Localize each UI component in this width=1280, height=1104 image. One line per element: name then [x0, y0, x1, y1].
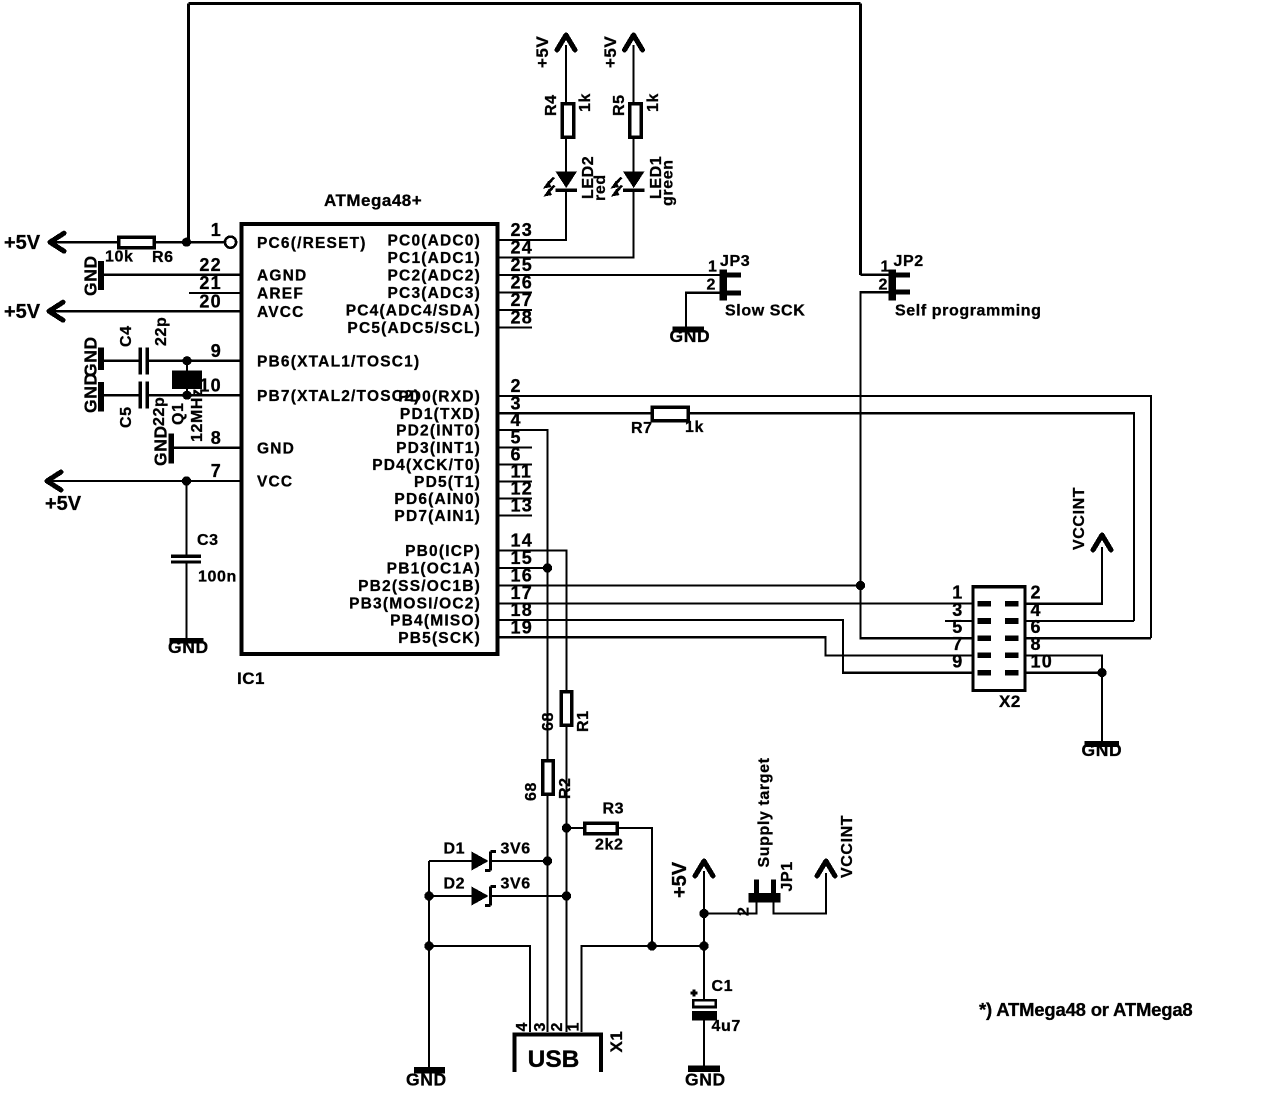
wire PC2 pin 25 to JP3 [498, 274, 720, 276]
svg-text:GND: GND [81, 336, 101, 377]
wire D2 cathode to D+ [491, 895, 567, 897]
wire R4 to LED2 [565, 138, 567, 173]
wire top reset rail [189, 2, 861, 5]
ground (X2) [1085, 741, 1120, 747]
crystal Q1 12MHz [172, 371, 202, 390]
wire PD4 pin 6 stub [498, 463, 533, 465]
svg-text:+5V: +5V [533, 36, 552, 68]
svg-text:22p: 22p [153, 317, 170, 346]
svg-text:Slow SCK: Slow SCK [725, 303, 805, 320]
wire top rail to JP2 pin1 [861, 274, 889, 276]
node JP1 junction [699, 909, 708, 918]
wire PC4 pin 27 stub [498, 309, 533, 311]
node XTAL1 junction [182, 356, 191, 365]
node VCC junction [182, 476, 191, 485]
svg-text:VCCINT: VCCINT [839, 815, 856, 878]
ground (IC pin8) [169, 434, 175, 464]
svg-text:10k: 10k [105, 249, 134, 266]
svg-text:2k2: 2k2 [595, 837, 624, 854]
node X2 GND junction [1097, 668, 1106, 677]
op-amp U1 : microcontroller IC1 ATMega48 box [242, 224, 498, 654]
svg-text:4: 4 [514, 1022, 531, 1032]
svg-text:+5V: +5V [601, 36, 620, 68]
svg-text:PC5(ADC5/SCL): PC5(ADC5/SCL) [347, 320, 481, 337]
svg-text:7: 7 [211, 461, 222, 481]
node R3 junction on D+ [562, 823, 571, 832]
svg-text:GND: GND [81, 255, 101, 296]
wire PD1 TXD pin 3 to R7 [498, 412, 653, 414]
wire USB pin1 to +5V line [582, 946, 705, 1032]
svg-text:X2: X2 [999, 692, 1021, 711]
svg-text:1: 1 [881, 259, 891, 276]
svg-text:VCCINT: VCCINT [1071, 487, 1088, 550]
wire left rail vertical to R6 node [187, 4, 190, 243]
svg-text:1: 1 [566, 1022, 583, 1032]
wire AREF pin 21 stub [189, 292, 241, 294]
IC1 right pin name labels [346, 233, 481, 647]
svg-text:12MHz: 12MHz [189, 388, 206, 442]
node XTAL2 junction [182, 391, 191, 400]
wire PB3 MOSI pin 17 to X2 pin1 [498, 602, 974, 604]
VCCINT supply symbol (X2) [1093, 535, 1111, 550]
wire PC5 pin 28 stub [498, 326, 533, 328]
wire PD2 INT0 pin 4 down to USB D- [498, 430, 548, 1032]
svg-text:AVCC: AVCC [257, 304, 305, 321]
node PB1/INT0 junction [543, 563, 552, 572]
svg-text:PC3(ADC3): PC3(ADC3) [388, 285, 481, 302]
jumper JP2 Self programming [889, 270, 897, 301]
capacitor C3 100n [171, 555, 201, 558]
svg-text:PD6(AIN0): PD6(AIN0) [394, 491, 481, 508]
ground (JP3) [673, 327, 705, 333]
svg-text:red: red [592, 174, 609, 201]
wire C1 to GND [703, 1020, 705, 1065]
wire D2 anode [429, 895, 472, 897]
svg-text:R1: R1 [575, 710, 592, 732]
svg-text:ATMega48+: ATMega48+ [324, 191, 422, 210]
ground (USB shield) [414, 1067, 445, 1073]
svg-text:1: 1 [708, 259, 718, 276]
wire PD5 pin 11 stub [498, 480, 533, 482]
svg-text:4u7: 4u7 [712, 1018, 741, 1035]
wire LED2 to PC0 pin 23 [498, 192, 567, 240]
svg-text:R3: R3 [603, 801, 625, 818]
svg-text:green: green [660, 159, 677, 206]
node D2/D+ junction [562, 891, 571, 900]
wire +5V to R5 [632, 45, 634, 103]
svg-text:21: 21 [199, 273, 222, 293]
svg-text:+5V: +5V [45, 493, 82, 515]
svg-text:Q1: Q1 [170, 402, 187, 425]
svg-text:3: 3 [532, 1022, 549, 1032]
diode D1 3V6 [472, 852, 489, 871]
wire R3 to +5V line [617, 828, 652, 946]
resistor R5 1k [630, 104, 642, 138]
svg-text:PD1(TXD): PD1(TXD) [400, 406, 481, 423]
svg-text:PB6(XTAL1/TOSC1): PB6(XTAL1/TOSC1) [257, 353, 420, 370]
wire R5 to LED1 [632, 138, 634, 173]
svg-text:GND: GND [151, 425, 171, 466]
svg-text:2: 2 [879, 277, 889, 294]
svg-text:1k: 1k [645, 93, 662, 112]
svg-text:PC2(ADC2): PC2(ADC2) [388, 268, 481, 285]
wire D+ to R3 [567, 827, 585, 829]
svg-text:1: 1 [211, 220, 222, 240]
svg-text:68: 68 [523, 782, 540, 801]
wire PD3 pin 5 stub [498, 446, 533, 448]
svg-text:22p: 22p [151, 397, 168, 426]
svg-text:Supply target: Supply target [756, 757, 773, 867]
wire +5V to R6 [51, 241, 118, 243]
IC1 right pin numbers [511, 220, 534, 637]
svg-text:9: 9 [952, 651, 963, 671]
resistor R2 68 [543, 761, 554, 795]
diode D2 3V6 [472, 887, 489, 906]
capacitor C5 22p [139, 382, 143, 409]
svg-text:C1: C1 [712, 978, 734, 995]
IC1 left pin name labels [257, 235, 420, 491]
pin 1 inversion circle [225, 237, 236, 248]
svg-text:JP1: JP1 [779, 861, 796, 891]
resistor R4 1k [562, 104, 574, 138]
wire PB4 MISO pin 18 to X2 pin9 [498, 620, 974, 673]
wire JP3 pin2 to GND [686, 293, 720, 327]
svg-text:PB4(MISO): PB4(MISO) [390, 613, 481, 630]
svg-text:PB3(MOSI/OC2): PB3(MOSI/OC2) [349, 596, 481, 613]
svg-text:9: 9 [211, 341, 222, 361]
svg-text:GND: GND [670, 326, 711, 346]
capacitor C4 22p [139, 348, 143, 375]
svg-text:PD4(XCK/T0): PD4(XCK/T0) [372, 457, 481, 474]
svg-text:PC1(ADC1): PC1(ADC1) [388, 250, 481, 267]
IC1 left pin numbers [199, 220, 222, 481]
+5V supply symbol (JP1) [695, 861, 713, 876]
svg-text:2: 2 [549, 1022, 566, 1032]
+5V supply symbol (AVCC) [49, 302, 63, 320]
svg-text:PB1(OC1A): PB1(OC1A) [387, 561, 481, 578]
wire D1 anode [429, 860, 472, 862]
svg-text:JP2: JP2 [894, 253, 924, 270]
svg-text:*) ATMega48 or ATMega8: *) ATMega48 or ATMega8 [979, 999, 1193, 1020]
LED LED2 red [556, 172, 578, 189]
svg-text:Self programming: Self programming [895, 303, 1042, 320]
wire +5V to AVCC pin 20 [50, 310, 241, 312]
wire X2 pin4 up [1025, 620, 1134, 622]
node D1/D- junction [543, 856, 552, 865]
svg-text:2: 2 [736, 907, 753, 917]
wire PD7 pin 13 stub [498, 514, 533, 516]
node D1/D2 GND junction [424, 891, 433, 900]
connector X2 ISP header [973, 587, 1025, 691]
wire X2 pin6 up [1025, 637, 1151, 639]
wire C3 to GND [185, 564, 187, 638]
svg-text:GND: GND [406, 1070, 447, 1090]
capacitor C1 4u7 polarized [693, 1000, 716, 1007]
svg-text:GND: GND [257, 440, 295, 457]
svg-text:PD7(AIN1): PD7(AIN1) [394, 508, 481, 525]
svg-text:PD2(INT0): PD2(INT0) [396, 423, 481, 440]
wire PB0 pin 14 down to USB D+ [498, 551, 567, 1033]
svg-text:R5: R5 [611, 94, 628, 116]
svg-text:PC6(/RESET): PC6(/RESET) [257, 235, 367, 252]
USB pin labels [514, 1022, 583, 1032]
wire X2 pin2 to VCCINT [1025, 547, 1102, 604]
wire R6 to IC pin1 [155, 241, 225, 243]
svg-text:R7: R7 [631, 420, 653, 437]
wire X2 pin10 to GND [1025, 673, 1102, 741]
node RESET junction [182, 238, 191, 247]
wire PC3 pin 26 stub [498, 291, 533, 293]
svg-text:22: 22 [199, 255, 222, 275]
svg-text:100n: 100n [198, 569, 237, 586]
wire diode GND rail [428, 861, 430, 1067]
node R3 drop junction [647, 941, 656, 950]
wire GND to AGND pin 22 [104, 274, 241, 276]
+5V supply symbol (VCC pin7) [47, 472, 61, 490]
wire GND rail to USB pin4 [429, 946, 530, 1032]
svg-text:3V6: 3V6 [501, 841, 531, 858]
node PB2/JP2 junction [856, 581, 865, 590]
wire R7 to X2 pin4 [688, 413, 1134, 621]
wire X2 pin3 NC stub [945, 620, 973, 622]
svg-text:PC0(ADC0): PC0(ADC0) [388, 233, 481, 250]
svg-text:PB7(XTAL2/TOSC2): PB7(XTAL2/TOSC2) [257, 388, 420, 405]
svg-text:VCC: VCC [257, 474, 293, 491]
svg-text:PD0(RXD): PD0(RXD) [398, 389, 481, 406]
svg-text:GND: GND [1082, 740, 1123, 760]
svg-text:USB: USB [528, 1046, 580, 1073]
X2 pin numbers [952, 583, 1053, 672]
wire right rail vertical to JP2 pin1 [859, 4, 862, 275]
+5V supply symbol (RESET pullup) [50, 233, 64, 251]
svg-text:C5: C5 [118, 406, 135, 428]
svg-text:8: 8 [211, 428, 222, 448]
svg-text:2: 2 [707, 277, 717, 294]
resistor R6 [119, 237, 155, 248]
connector X1 USB [515, 1035, 602, 1073]
svg-text:1k: 1k [685, 419, 704, 436]
ground (AGND pin22) [98, 261, 104, 290]
+5V supply symbol (R4) [557, 35, 575, 50]
wire +5V down through JP1 node to C1 [703, 871, 705, 1000]
wire C5 to XTAL2 pin 10 [149, 394, 241, 396]
node C1 junction [699, 941, 708, 950]
wire +5V node to JP1 pin2 [704, 893, 757, 914]
wire +5V to R4 [565, 45, 567, 103]
node USB GND branch [424, 941, 433, 950]
svg-text:GND: GND [168, 637, 209, 657]
VCCINT supply symbol (JP1) [817, 861, 835, 876]
svg-text:+5V: +5V [4, 232, 41, 254]
wire GND to pin 8 [174, 447, 241, 449]
wire PB5 SCK pin 19 to X2 pin7 [498, 637, 974, 655]
svg-text:PC4(ADC4/SDA): PC4(ADC4/SDA) [346, 303, 481, 320]
svg-text:JP3: JP3 [720, 253, 750, 270]
resistor R7 1k [652, 407, 688, 420]
+5V supply symbol (R5) [625, 35, 643, 50]
svg-text:R4: R4 [543, 94, 560, 116]
svg-text:3V6: 3V6 [501, 876, 531, 893]
svg-text:PB5(SCK): PB5(SCK) [398, 630, 481, 647]
svg-text:+5V: +5V [4, 301, 41, 323]
wire JP1 pin1 to VCCINT [774, 873, 827, 914]
wire C4 to XTAL1 pin 9 [149, 360, 241, 362]
wire D1 cathode to D- [491, 860, 548, 862]
svg-text:PB0(ICP): PB0(ICP) [405, 543, 481, 560]
resistor R1 68 [561, 692, 572, 726]
wire PD0 RXD pin 2 to X2 pin6 [498, 396, 1152, 638]
svg-text:PD3(INT1): PD3(INT1) [396, 440, 481, 457]
jumper JP3 Slow SCK [720, 270, 728, 301]
svg-text:AGND: AGND [257, 267, 307, 284]
svg-text:IC1: IC1 [237, 669, 265, 688]
wire PD6 pin 12 stub [498, 497, 533, 499]
wire JP2 pin2 down to PB2 node and X2 pin5 [861, 292, 974, 638]
svg-text:68: 68 [540, 712, 557, 731]
jumper JP1 Supply target [749, 893, 781, 903]
svg-text:AREF: AREF [257, 286, 304, 303]
svg-text:1k: 1k [577, 93, 594, 112]
svg-text:R2: R2 [557, 777, 574, 799]
wire PB1 pin 15 to D- node [498, 567, 548, 569]
svg-text:PD5(T1): PD5(T1) [414, 474, 481, 491]
wire PB2 pin 16 to JP2 line [498, 584, 861, 586]
svg-text:GND: GND [81, 372, 101, 413]
wire X2 pin8 to GND node [1025, 655, 1102, 672]
svg-text:C4: C4 [118, 325, 135, 347]
svg-text:X1: X1 [607, 1031, 626, 1053]
ground (C5) [98, 382, 104, 412]
svg-text:D1: D1 [444, 841, 466, 858]
svg-text:GND: GND [685, 1070, 726, 1090]
LED LED1 green [623, 172, 645, 189]
resistor R3 2k2 [585, 823, 618, 834]
wire VCC node to C3 [185, 481, 187, 555]
ground (C1) [688, 1066, 720, 1072]
ground (C3) [170, 638, 204, 644]
svg-text:C3: C3 [197, 532, 219, 549]
svg-text:+5V: +5V [669, 861, 691, 898]
ground (C4) [98, 348, 104, 371]
wire +5V to VCC pin 7 [48, 480, 241, 482]
wire GND-C4 [104, 360, 139, 362]
svg-text:R6: R6 [152, 249, 174, 266]
svg-text:PB2(SS/OC1B): PB2(SS/OC1B) [358, 578, 481, 595]
svg-text:20: 20 [199, 291, 222, 311]
wire GND-C5 [104, 394, 139, 396]
wire LED1 to PC1 pin 24 [498, 192, 634, 258]
svg-text:D2: D2 [444, 876, 466, 893]
